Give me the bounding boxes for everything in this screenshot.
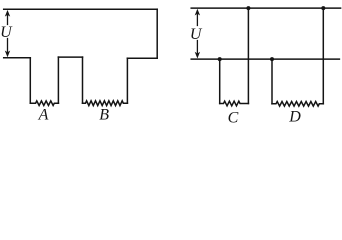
wire: left circuit mid-left rail — [4, 57, 31, 59]
wire: resistor C left-side vertical — [219, 59, 221, 103]
voltage arrow U (right): shaft — [196, 13, 198, 55]
wire: resistor B left-side vertical — [82, 57, 84, 103]
svg-text:C: C — [228, 109, 239, 126]
resistor A — [30, 101, 58, 106]
wire: resistor B right-side vertical — [126, 58, 128, 103]
wire: resistor A right-side vertical — [57, 57, 59, 103]
voltage arrow U (left): lower arrowhead — [5, 51, 10, 58]
wire: right circuit top rail — [191, 7, 340, 9]
junction dot: D leg on mid rail — [270, 57, 274, 61]
voltage arrow U (right): lower arrowhead — [195, 52, 200, 59]
junction dot: C leg on mid rail — [218, 57, 222, 61]
resistor C — [220, 101, 249, 106]
svg-text:U: U — [190, 26, 203, 43]
wire: left circuit top rail — [4, 8, 158, 10]
voltage arrow U (right): upper arrowhead — [195, 9, 200, 16]
junction dot: C tap on top rail — [246, 6, 250, 10]
svg-text:B: B — [99, 107, 109, 124]
junction dot: D tap on top rail — [321, 6, 325, 10]
resistor B — [83, 101, 128, 106]
voltage arrow U (left): shaft — [7, 14, 9, 54]
voltage arrow U (left): upper arrowhead — [5, 10, 10, 17]
svg-text:A: A — [38, 107, 49, 124]
wire: resistor D left-side vertical — [271, 59, 273, 104]
wire: bridge between A and B legs — [58, 56, 82, 58]
wire: left circuit mid-right rail — [127, 57, 157, 59]
wire: left circuit right vertical — [156, 9, 158, 58]
wire: right circuit mid rail — [191, 58, 339, 60]
wire: C tap vertical to top rail — [247, 8, 249, 103]
svg-text:D: D — [288, 109, 301, 126]
wire: resistor A left-side vertical — [29, 58, 31, 103]
wire: D tap vertical to top rail — [322, 8, 324, 104]
resistor D — [272, 102, 323, 107]
svg-text:U: U — [0, 24, 13, 41]
